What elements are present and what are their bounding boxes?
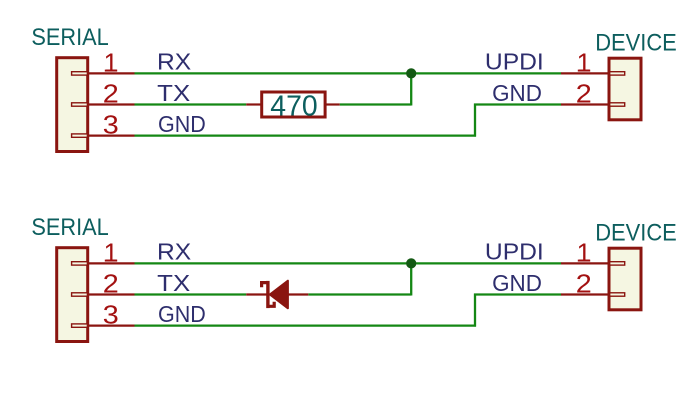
svg-text:UPDI: UPDI [485,239,544,265]
wire node vertical drop (bottom) [410,263,412,295]
wire TX to diode (bottom) [135,293,247,295]
svg-text:1: 1 [104,48,118,78]
svg-text:470: 470 [270,89,317,121]
junction node (bottom) [406,258,416,268]
wire RX to UPDI (top) [135,72,562,74]
svg-text:2: 2 [576,269,592,299]
svg-text:GND: GND [158,111,206,137]
DEVICE pin 1 lead (bottom) [561,262,609,264]
wire GND vertical riser (top) [474,104,476,137]
SERIAL pin 1 lead (top) [89,72,135,74]
svg-text:2: 2 [103,79,119,109]
diode D1 cathode bar [266,281,269,308]
SERIAL pin 3 lead (top) [89,135,135,137]
DEVICE pin 1 lead (top) [561,72,609,74]
diode D1 (Schottky) leads [246,293,268,295]
SERIAL pin 1 lead (bottom) [89,262,135,264]
wire TX to resistor (top) [135,103,247,105]
diode D1 cathode top hook [262,283,269,288]
svg-text:DEVICE: DEVICE [595,220,677,247]
svg-text:TX: TX [157,270,190,296]
SERIAL pin 2 stub (top) [72,103,88,106]
svg-text:SERIAL: SERIAL [31,214,108,241]
resistor 470 leads (top) [246,103,262,105]
wire GND to device (top) [474,103,561,105]
svg-text:3: 3 [103,300,119,330]
SERIAL pin 3 stub (bottom) [72,324,88,327]
DEVICE pin 2 stub (bottom) [610,293,625,296]
DEVICE pin 1 stub (top) [610,72,625,75]
svg-text:SERIAL: SERIAL [31,24,108,51]
svg-text:GND: GND [492,80,542,106]
svg-text:TX: TX [157,80,190,106]
SERIAL pin 1 stub (top) [72,72,88,75]
svg-text:GND: GND [492,270,542,296]
wire node vertical drop (top) [410,73,412,105]
junction node (top) [406,68,416,78]
wire diode to node (bottom) [308,293,411,295]
resistor R1 body [262,92,325,117]
wire GND horizontal (bottom) [135,324,477,326]
svg-text:GND: GND [158,301,206,327]
SERIAL pin 3 stub (top) [72,134,88,137]
svg-text:1: 1 [577,48,591,78]
DEVICE pin 2 lead (bottom) [561,293,609,295]
SERIAL pin 1 stub (bottom) [72,262,88,265]
connector DEVICE (top) body [609,58,641,120]
SERIAL pin 2 stub (bottom) [72,293,88,296]
wire GND horizontal (top) [135,134,477,136]
wire resistor to node (top) [340,103,412,105]
svg-text:2: 2 [576,79,592,109]
svg-text:DEVICE: DEVICE [595,30,677,57]
svg-text:2: 2 [103,269,119,299]
svg-text:1: 1 [577,238,591,268]
DEVICE pin 2 lead (top) [561,103,609,105]
wire GND to device (bottom) [474,293,561,295]
wire RX to UPDI (bottom) [135,262,562,264]
SERIAL pin 2 lead (bottom) [89,293,135,295]
svg-text:3: 3 [103,110,119,140]
SERIAL pin 2 lead (top) [89,103,135,105]
connector SERIAL (top) body [57,58,88,152]
svg-text:RX: RX [157,49,192,75]
connector SERIAL (bottom) body [57,248,88,342]
SERIAL pin 3 lead (bottom) [89,325,135,327]
wire GND vertical riser (bottom) [474,294,476,327]
diode D1 cathode bottom hook [267,302,274,307]
diode D1 anode triangle [270,281,288,309]
DEVICE pin 2 stub (top) [610,103,625,106]
DEVICE pin 1 stub (bottom) [610,262,625,265]
svg-text:1: 1 [104,238,118,268]
svg-text:UPDI: UPDI [485,49,544,75]
svg-text:RX: RX [157,239,192,265]
connector DEVICE (bottom) body [609,248,641,310]
